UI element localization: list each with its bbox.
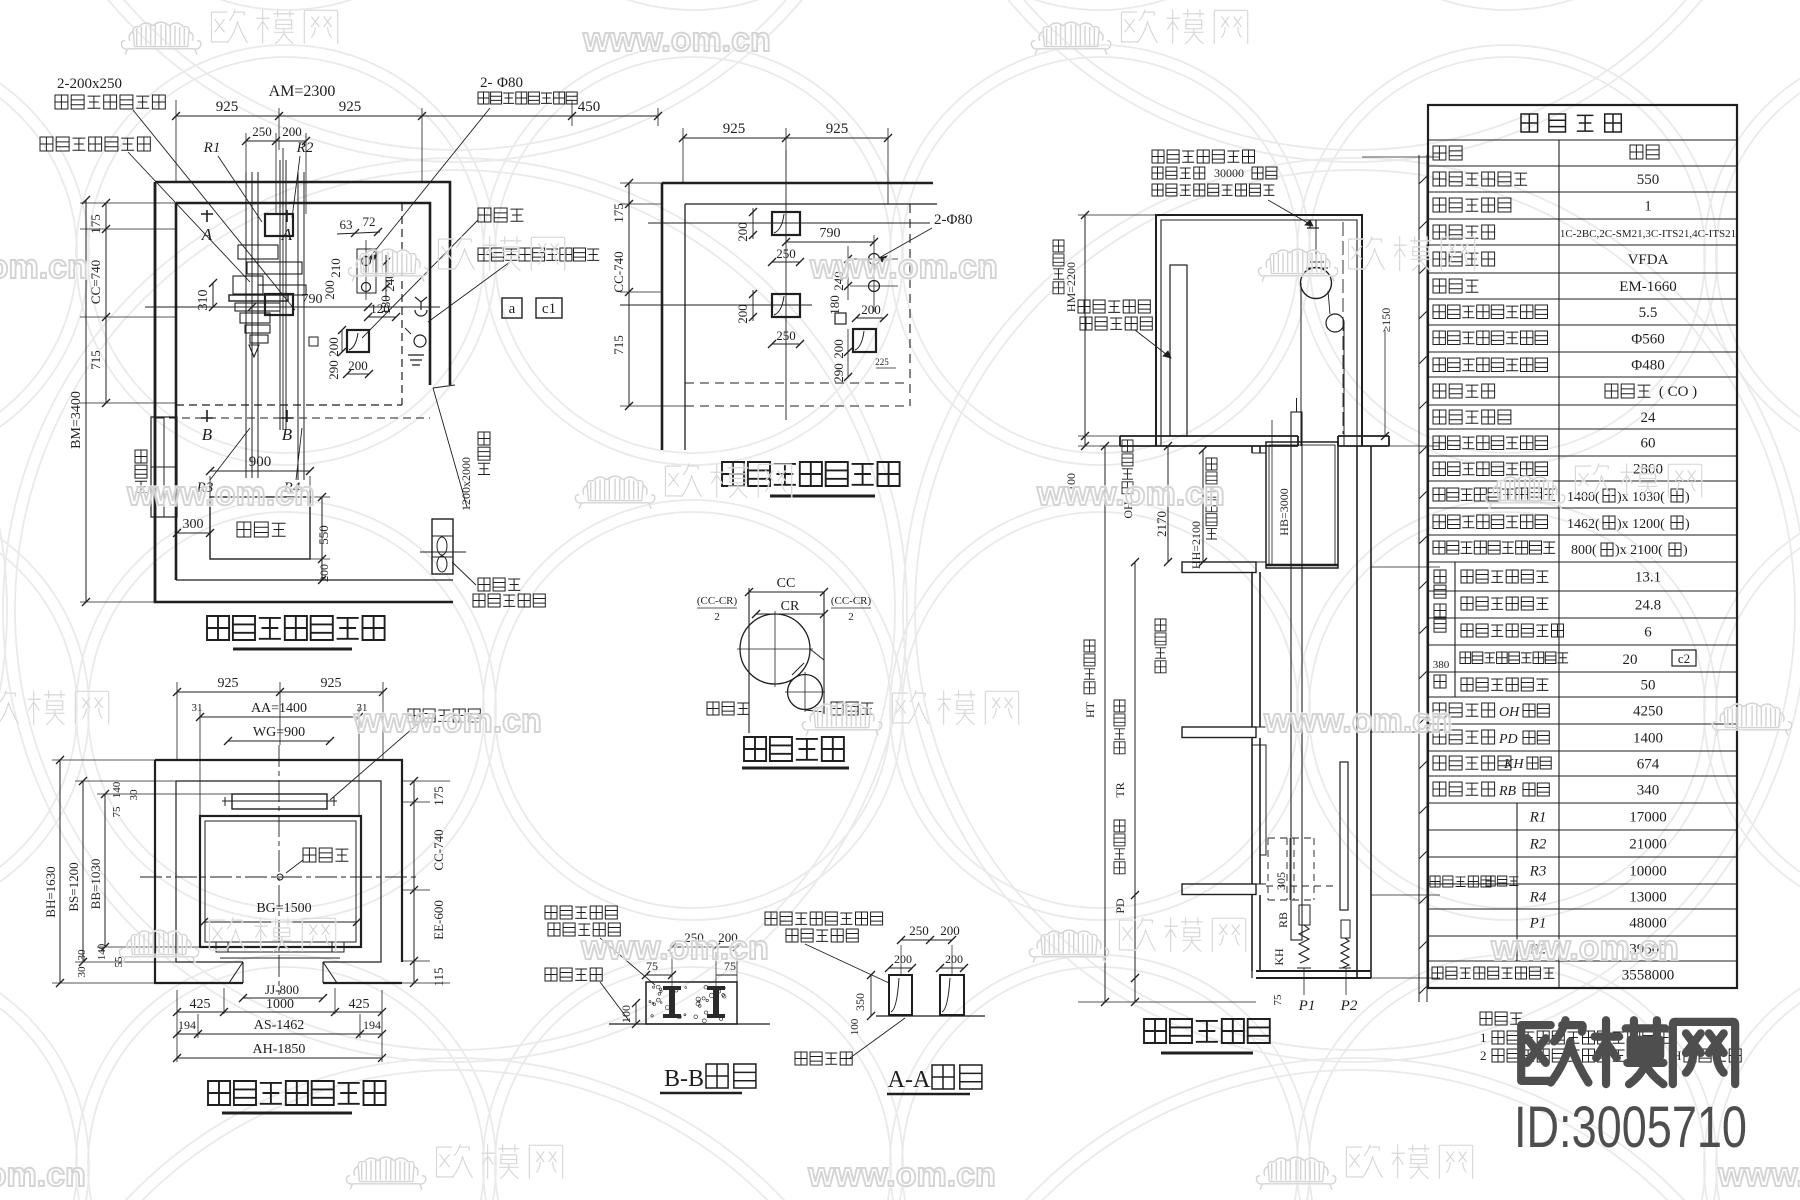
svg-text:R1: R1 [203,140,221,156]
svg-text:30: 30 [76,949,88,961]
label cast concrete (2 lines) [1078,300,1150,313]
svg-text:250: 250 [909,923,929,938]
table: row lines [1428,140,1737,961]
svg-text:800(: 800( [1571,543,1597,558]
svg-text:2800: 2800 [1633,462,1663,478]
hole plan: walls [662,183,933,450]
table: column divider [1558,140,1560,988]
svg-text:EM-1660: EM-1660 [1619,279,1677,295]
svg-text:180: 180 [827,295,842,315]
svg-text:250: 250 [776,246,796,261]
hole plan: dims around squares [752,208,754,239]
svg-text:200: 200 [348,358,368,373]
svg-text:P2: P2 [1340,998,1358,1014]
svg-text:R2: R2 [1529,837,1547,853]
notes text [1480,1012,1522,1025]
svg-text:KH: KH [1272,948,1286,966]
label floor spacing [1155,619,1166,673]
B-B: floor line [609,1023,770,1025]
hole plan: top dim 925 925 [683,137,888,139]
svg-text:( CO ): ( CO ) [1659,384,1697,400]
svg-text:HT: HT [1083,701,1097,718]
table: title [1521,114,1621,132]
svg-text:1000: 1000 [266,997,294,1012]
governor rope holes [357,249,376,293]
svg-text:CC-740: CC-740 [611,251,626,292]
svg-text:1400: 1400 [1633,731,1663,747]
traction: sheave big circle [740,614,810,684]
table row: control mode VFDA [1433,252,1495,266]
svg-text:BG=1500: BG=1500 [256,901,311,916]
wire duct hole square [347,330,369,352]
svg-text:31: 31 [192,702,203,714]
svg-text:210: 210 [328,258,343,278]
svg-text:c1: c1 [542,301,556,317]
svg-text:www.om.cn: www.om.cn [580,929,769,967]
svg-text:AS-1462: AS-1462 [254,1018,305,1033]
hole plan: dashed zone [909,204,911,406]
svg-text:925: 925 [826,121,849,137]
svg-text:KH: KH [1503,757,1524,772]
svg-text:24: 24 [1641,410,1657,426]
dim 2170 and HH=2100 [1202,450,1204,562]
svg-text:AH-1850: AH-1850 [253,1042,306,1057]
svg-text:CC: CC [777,576,796,591]
dim 900 [210,470,310,472]
hole plan: centre line vertical [785,150,787,420]
shaft plan: inner wall line [176,781,381,962]
table: outer border [1428,105,1737,988]
svg-text:310: 310 [196,290,211,311]
svg-text:2-: 2- [480,75,493,91]
table row: heat dissipation 3558000 [1432,967,1554,979]
svg-text:CR: CR [781,599,800,614]
svg-text:925: 925 [339,99,362,115]
A-A: label reserved hole grouting [765,912,883,925]
svg-text:290: 290 [326,360,341,380]
svg-text:HH=2100: HH=2100 [1189,521,1203,569]
table row: max travel 60 [1433,436,1548,450]
svg-text:290: 290 [831,363,846,383]
svg-text:Φ80: Φ80 [497,75,523,91]
A-A: dims 250 200 200 200 [901,939,952,941]
svg-text:1200x2000: 1200x2000 [459,457,473,511]
title: machine room hole plan [722,462,900,486]
svg-text:925: 925 [218,676,239,691]
svg-text:)x 1200(: )x 1200( [1617,517,1665,532]
svg-text:925: 925 [723,121,746,137]
svg-text:www.om.cn: www.om.cn [1717,1156,1800,1194]
svg-text:1C-2BC,2C-SM21,3C-ITS21,4C-ITS: 1C-2BC,2C-SM21,3C-ITS21,4C-ITS21 [1560,228,1736,240]
table row: car inside dims [1433,488,1555,501]
svg-text:350: 350 [853,993,867,1011]
svg-text:24.8: 24.8 [1635,598,1661,614]
table: power source vertical label [1434,570,1446,598]
title: shaft section [1144,1019,1270,1043]
svg-text:AA=1400: AA=1400 [251,701,307,716]
svg-text:300: 300 [183,517,204,532]
floor level chain right [1418,155,1420,1002]
svg-text:JJ-800: JJ-800 [265,982,299,997]
labels hook load (3 lines) [1152,150,1255,163]
svg-text:www.om.cn: www.om.cn [0,1156,86,1194]
B-B: label concrete pad [545,906,617,919]
svg-text:175: 175 [88,214,103,234]
machine room plan: machine cluster [246,160,304,480]
svg-text:50: 50 [1641,678,1656,694]
svg-text:900: 900 [249,454,272,470]
table row: min floor distance 2800 [1433,462,1548,476]
door swing [433,388,467,507]
svg-text:TR: TR [1113,782,1127,797]
svg-text:PD: PD [1113,898,1127,914]
shaft section: machine slab [1120,436,1389,446]
svg-text:115: 115 [431,967,446,986]
svg-text:715: 715 [88,350,103,370]
svg-text:200: 200 [735,222,750,242]
table: reaction force label [1430,876,1491,887]
dim AA=1400 [200,716,359,718]
dim HM=2200 machine room height [1084,215,1086,446]
table row: speed 1 [1433,198,1511,212]
svg-text:6: 6 [1644,625,1652,641]
table row: fuse rated current 20 [1460,652,1568,664]
top dim chain 925 925 [177,691,383,693]
table row: buffer height KH 674 [1433,756,1511,770]
small box symbol [309,337,318,346]
right dim chain 175 CC EE 115 [413,781,415,983]
hole plan: governor holes [869,254,880,265]
svg-text:HM=2200: HM=2200 [1064,262,1078,312]
svg-text:305: 305 [1274,872,1288,890]
table row: traction machine EM-1660 [1433,279,1478,293]
svg-text:R1: R1 [1529,810,1547,826]
left dim chains HT TR PD [1104,446,1106,1002]
labels car side / cwt side [707,702,749,715]
label hook (by customer) [40,137,150,151]
svg-text:): ) [1685,490,1690,505]
svg-text:www.om.cn: www.om.cn [809,248,998,286]
svg-text:VFDA: VFDA [1628,252,1669,268]
svg-text:A: A [201,225,213,244]
shaft plan: counterweight [232,794,327,809]
svg-text:75: 75 [1272,994,1284,1006]
svg-text:225: 225 [875,357,889,367]
counterweight [1340,762,1348,910]
left dim chains BH BS BB [59,760,61,983]
label counterweight guard [408,709,480,722]
svg-text:450: 450 [578,99,601,115]
svg-text:72: 72 [363,214,376,229]
svg-text:250: 250 [776,328,796,343]
svg-text:925: 925 [321,676,342,691]
svg-text:63: 63 [340,217,353,232]
hole plan: left dim chain [628,183,630,406]
traction: deflector small circle [788,675,823,710]
svg-text:R3: R3 [1529,864,1547,880]
svg-text:10000: 10000 [1629,864,1667,880]
svg-text:HB=3000: HB=3000 [1277,488,1291,535]
traction: ropes [749,588,804,675]
table row: overtravel RB 340 [1433,782,1495,796]
shaft plan: centre lines [140,876,420,878]
svg-text:www.om.cn: www.om.cn [0,248,88,286]
svg-text:EE-600: EE-600 [431,900,446,940]
svg-text:B: B [282,425,293,444]
buffers with springs [1299,905,1310,925]
svg-text:100: 100 [619,1005,633,1023]
table row: max stops 24 [1433,410,1511,424]
ground symbol [408,355,424,365]
svg-text:13000: 13000 [1629,890,1667,906]
table row: power capacity 6 [1461,624,1564,637]
shaft section: machine room walls [1156,215,1362,446]
svg-text:200: 200 [861,302,881,317]
table row: sheave dia 560 [1433,331,1548,345]
svg-text:340: 340 [1637,783,1660,799]
vent window in left wall [151,417,177,517]
dim WG=900 [228,740,330,742]
table: reaction group divider [1516,803,1518,961]
svg-text:30000: 30000 [1214,166,1244,180]
svg-text:(CC-CR): (CC-CR) [831,595,872,607]
power switch symbols [415,297,427,316]
svg-text:5.5: 5.5 [1639,305,1658,321]
svg-text:100: 100 [849,1018,861,1035]
label exhaust fan [478,578,520,591]
svg-text:2170: 2170 [1154,511,1169,537]
svg-text:B: B [202,425,213,444]
shaft plan: door jambs [229,962,337,983]
shaft plan: outer walls [155,760,402,983]
svg-text:30: 30 [128,789,140,801]
control panel [210,497,310,559]
section marker A-A [201,210,213,222]
dim 250 200 [246,140,306,142]
svg-text:www.om.cn: www.om.cn [1263,702,1452,740]
svg-text:30: 30 [76,966,88,978]
traction: verticals [748,588,750,733]
svg-text:2: 2 [714,611,720,623]
svg-text:PD: PD [1498,732,1518,747]
svg-text:A: A [281,225,293,244]
svg-text:≥150: ≥150 [1379,308,1393,333]
A-A: hole blocks [889,975,912,1015]
svg-text:425: 425 [190,997,211,1012]
car [1266,442,1338,568]
table row: power frequency 50 [1461,678,1548,691]
table row: operation mode [1433,225,1495,239]
svg-text:380: 380 [1433,659,1450,671]
table row: full load current 13.1 [1461,570,1548,583]
table row: capacity 550 [1433,172,1527,186]
bottom dim chains [177,1011,382,1013]
svg-text:60: 60 [1641,436,1656,452]
svg-text:): ) [1683,543,1688,558]
svg-text:A-A: A-A [888,1067,931,1093]
svg-text:Φ480: Φ480 [1631,358,1664,374]
svg-text:925: 925 [216,99,239,115]
table row: starting current 24.8 [1461,597,1548,610]
svg-text:)x 2100(: )x 2100( [1615,543,1663,558]
svg-text:www.om.cn: www.om.cn [1490,929,1679,967]
svg-text:R4: R4 [1529,890,1547,906]
machine room plan: centre lines [145,306,440,308]
hole plan: rope hole squares [772,212,800,235]
svg-text:790: 790 [820,226,841,241]
svg-text:www.om.cn: www.om.cn [582,21,771,59]
title: machine room plan layout [207,616,385,640]
svg-text:Φ560: Φ560 [1631,332,1664,348]
svg-text:(CC-CR): (CC-CR) [697,595,738,607]
dim 790 [252,306,368,308]
svg-text:200: 200 [945,952,963,966]
svg-text:200: 200 [322,280,337,300]
svg-text:21000: 21000 [1629,837,1667,853]
hole plan: dim 790 [786,241,874,243]
svg-text:3558000: 3558000 [1622,968,1675,984]
table row: door opening size [1433,541,1555,554]
svg-text:425: 425 [349,997,370,1012]
label wire duct hole [478,208,523,222]
svg-text:200: 200 [282,124,302,139]
svg-text:790: 790 [302,292,323,307]
landing doors [1260,453,1266,855]
machine room plan: bottom wall inner [176,579,453,581]
title: shaft plan layout [208,1081,386,1105]
svg-text:140: 140 [111,781,123,798]
svg-text:1: 1 [1480,1030,1487,1045]
shaft section: hook on ceiling [1307,220,1319,228]
section marker B-B [201,410,213,422]
svg-text:200: 200 [317,564,331,582]
svg-text:www.om.cn: www.om.cn [807,1156,996,1194]
table row: guide wheel dia 480 [1433,358,1548,372]
machine room plan: dashed equipment zone [401,203,403,405]
svg-text:a: a [509,301,516,317]
svg-text:715: 715 [611,335,626,355]
big omcn logo [1521,1020,1735,1084]
svg-text:200: 200 [894,952,912,966]
traction: dim CC CR [749,591,824,593]
B-B: label machine room floor [545,968,602,981]
svg-text:4250: 4250 [1633,704,1663,720]
svg-text:2-200x250: 2-200x250 [57,76,122,92]
svg-text:RB: RB [1276,912,1290,928]
svg-text:200: 200 [831,339,846,359]
svg-text:RB: RB [1498,784,1517,799]
shaft section: pedestal [1170,265,1187,436]
svg-text:75: 75 [111,806,123,818]
B-B: I-beams [663,986,681,1018]
svg-text:20: 20 [1623,652,1638,668]
table row: motor power 5.5 [1433,305,1548,319]
svg-text:www.om.cn: www.om.cn [353,702,542,740]
svg-text:BM=3400: BM=3400 [69,391,84,449]
svg-text:P1: P1 [1298,998,1316,1014]
svg-text:200: 200 [735,304,750,324]
shaft plan: car [200,816,361,947]
guide rail / sling [1291,412,1302,940]
svg-text:175: 175 [431,786,446,806]
table row: door opening CO [1433,384,1495,398]
svg-text:B-B: B-B [664,1066,704,1092]
svg-text:WG=900: WG=900 [253,725,305,740]
svg-text:BS=1200: BS=1200 [66,862,81,911]
shaft plan: car door sill [220,947,340,958]
svg-text:ID:3005710: ID:3005710 [1514,1095,1747,1160]
shaft section: dashed rope centreline [1342,222,1344,434]
svg-text:CC=740: CC=740 [88,260,103,304]
svg-text:200: 200 [940,923,960,938]
svg-text:): ) [1685,517,1690,532]
dim 550 / 200 [321,497,323,580]
svg-text:140: 140 [96,943,108,960]
table row: pit depth PD 1400 [1433,730,1495,744]
shaft walls [1252,446,1260,971]
svg-text:194: 194 [363,1018,381,1032]
title: traction method [744,737,844,761]
svg-text:550: 550 [316,525,331,545]
A-A: floor line [876,1015,985,1017]
svg-text:2: 2 [1480,1048,1487,1063]
svg-text:250: 250 [252,124,272,139]
table row: use / passenger lift [1433,146,1462,160]
boxed a c1 [502,298,522,318]
B-B: dims 250 200 75 75 100 [672,946,737,948]
hole plan: centre lines through squares [648,222,930,224]
svg-text:c2: c2 [1678,651,1690,666]
svg-text:550: 550 [1637,172,1660,188]
svg-text:13.1: 13.1 [1635,570,1661,586]
machine room door + fan [432,519,453,574]
label power/lighting switch box [478,248,599,261]
svg-text:CC-740: CC-740 [431,829,446,870]
machine room plan: walls [155,182,453,602]
label buffer [303,848,348,862]
svg-text:180: 180 [378,295,393,315]
svg-text:674: 674 [1637,757,1660,773]
svg-text:AM=2300: AM=2300 [269,83,336,100]
table: power group divider [1454,562,1456,697]
svg-text:BB=1030: BB=1030 [88,859,103,910]
svg-text:200: 200 [326,337,341,357]
svg-text:OH: OH [1499,705,1520,720]
table row: car outside dims [1433,515,1548,529]
svg-text:194: 194 [178,1018,196,1032]
svg-text:175: 175 [611,203,626,223]
dim 120 [368,316,396,318]
svg-text:www.om.cn: www.om.cn [1036,475,1225,513]
shaft section: sheave + deflector [1301,268,1332,299]
dim 310 [212,283,214,307]
svg-text:)x 1030(: )x 1030( [1617,490,1665,505]
svg-text:1462(: 1462( [1567,517,1600,532]
svg-text:2: 2 [848,611,854,623]
B-B: concrete slab [646,982,737,1024]
dashed car at pit [1268,838,1314,900]
svg-text:17000: 17000 [1629,810,1667,826]
svg-text:www.om.cn: www.om.cn [126,475,315,513]
svg-text:1: 1 [1644,199,1652,215]
dim OH chain [1167,446,1169,562]
left dim chain BM=3400 [85,200,87,602]
A-A: label machine room floor [795,1052,852,1065]
svg-text:BH=1630: BH=1630 [43,866,58,917]
table row: top floor height OH 4250 [1433,703,1495,717]
svg-text:2-Φ80: 2-Φ80 [934,212,972,228]
landing slabs [1182,562,1256,573]
